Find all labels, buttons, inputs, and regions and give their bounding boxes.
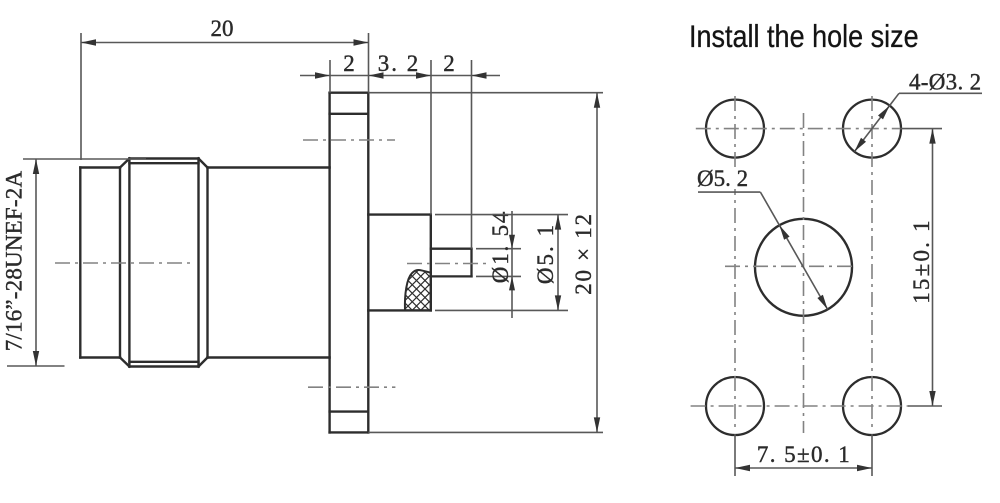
svg-text:Ø1. 54: Ø1. 54 xyxy=(488,210,513,283)
svg-text:Install the hole size: Install the hole size xyxy=(689,19,919,54)
svg-text:2: 2 xyxy=(443,51,455,76)
svg-text:7/16”-28UNEF-2A: 7/16”-28UNEF-2A xyxy=(2,171,27,352)
svg-text:Ø5. 1: Ø5. 1 xyxy=(533,223,558,284)
svg-text:20 × 12: 20 × 12 xyxy=(571,212,596,294)
svg-text:15±0. 1: 15±0. 1 xyxy=(909,218,934,304)
svg-text:4-Ø3. 2: 4-Ø3. 2 xyxy=(909,70,981,95)
svg-text:2: 2 xyxy=(343,51,355,76)
svg-text:7. 5±0. 1: 7. 5±0. 1 xyxy=(757,442,851,467)
svg-text:20: 20 xyxy=(211,16,234,41)
svg-text:3. 2: 3. 2 xyxy=(378,51,421,76)
svg-text:Ø5. 2: Ø5. 2 xyxy=(697,166,748,191)
